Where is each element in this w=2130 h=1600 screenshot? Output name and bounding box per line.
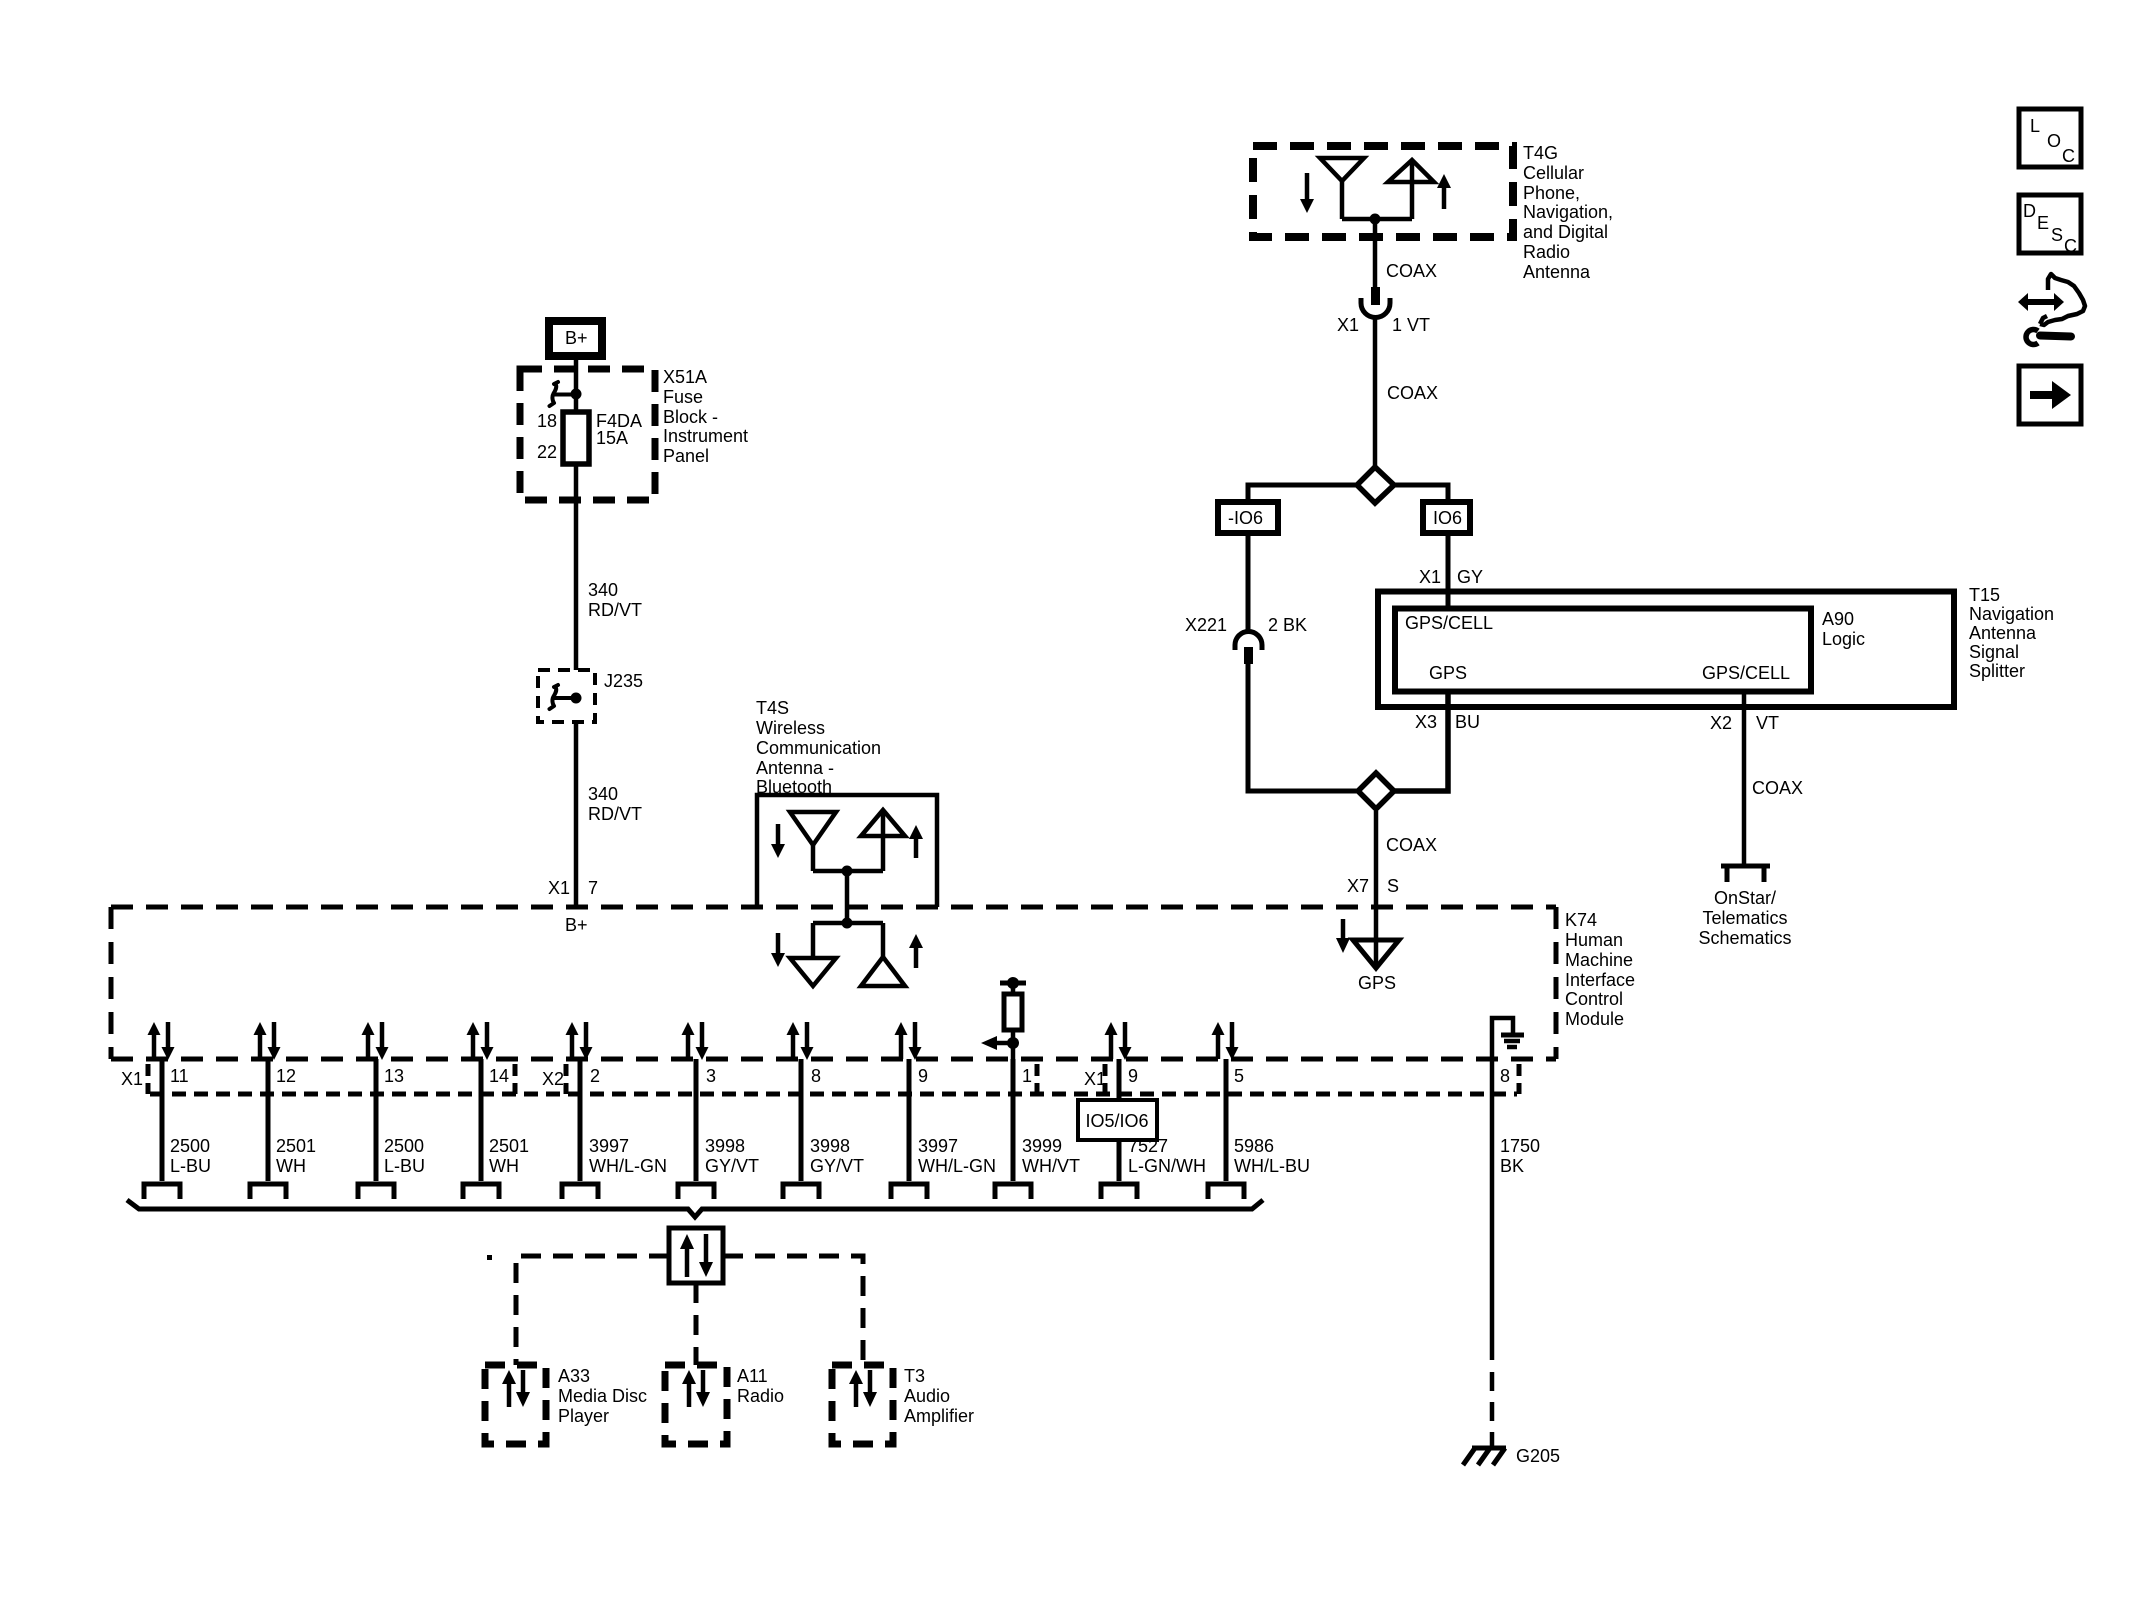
module A11 dashed box [665,1365,727,1444]
label T4S Wireless Communication Antenna - Bluetooth [756,698,881,797]
wire label 2501 WH [276,1136,316,1176]
splice diamond upper [1357,467,1394,503]
label X51A Fuse Block - Instrument Panel [663,367,748,466]
terminal staple pin 14 [463,1184,499,1199]
svg-text:VT: VT [1756,713,1779,733]
svg-text:2501: 2501 [276,1136,316,1156]
terminal staple pin 9 (X1) [1101,1184,1137,1199]
connector separator after pin 1 [1035,1064,1040,1094]
svg-text:WH/L-BU: WH/L-BU [1234,1156,1310,1176]
pin label X2 VT [1710,713,1779,733]
wire label 2500 L-BU [170,1136,211,1176]
terminal staple pin 9 [891,1184,927,1199]
wire label 5986 WH/L-BU [1234,1136,1310,1176]
T4G down arrow [1300,173,1314,213]
junction dot T4S [842,866,853,877]
icon service (double arrow, panel outline, wrench) [2018,274,2085,345]
T4S down arrow [771,824,785,858]
wire 1750 BK [1490,1059,1495,1360]
wire GPS out to splice [1394,691,1448,791]
label A90 Logic [1822,609,1865,649]
antenna T4S box [757,795,937,907]
pin label X3 BU [1415,712,1480,732]
K74 internal down arrow [771,933,785,967]
GPS antenna input symbol [1353,940,1399,968]
svg-text:5: 5 [1234,1066,1244,1086]
wire label 3997 WH/L-GN [589,1136,667,1176]
svg-text:X1: X1 [121,1069,143,1089]
svg-text:Signal: Signal [1969,642,2019,662]
wire 340 RD/VT lower segment [574,722,579,907]
wire IO6 to splitter [1446,533,1451,609]
svg-text:2: 2 [590,1066,600,1086]
pin 9 (X1) arrows [1105,1022,1132,1060]
icon box LOC [2019,109,2081,167]
svg-text:X2: X2 [542,1069,564,1089]
svg-text:RD/VT: RD/VT [588,600,642,620]
T4G receive antenna [1320,158,1364,219]
svg-text:K74: K74 [1565,910,1597,930]
svg-text:A11: A11 [737,1366,768,1386]
svg-text:Wireless: Wireless [756,718,825,738]
wire stub pin 9 (X1) [1117,1059,1122,1181]
svg-text:IO6: IO6 [1433,508,1462,528]
svg-text:L-GN/WH: L-GN/WH [1128,1156,1206,1176]
svg-text:GPS/CELL: GPS/CELL [1405,613,1493,633]
svg-text:Antenna: Antenna [1523,262,1591,282]
svg-text:O: O [2047,131,2061,151]
svg-text:Telematics: Telematics [1702,908,1787,928]
wire B+ to fuse [574,360,579,412]
svg-text:BU: BU [1455,712,1480,732]
module T3 dashed box [832,1365,893,1444]
svg-text:Cellular: Cellular [1523,163,1584,183]
svg-text:L-BU: L-BU [384,1156,425,1176]
wire label 1750 BK [1500,1136,1540,1176]
svg-text:Audio: Audio [904,1386,950,1406]
svg-text:COAX: COAX [1387,383,1438,403]
label K74 Human Machine Interface Control Module [1565,910,1635,1029]
wire label 7527 L-GN/WH [1128,1136,1206,1176]
svg-text:A90: A90 [1822,609,1854,629]
pin 5 arrows [1212,1022,1239,1060]
svg-text:Navigation: Navigation [1969,604,2054,624]
svg-text:OnStar/: OnStar/ [1714,888,1776,908]
tag box -IO6 [1218,502,1278,533]
icon box arrow [2019,366,2081,424]
T4G antenna bus wire [1342,217,1412,222]
svg-text:Fuse: Fuse [663,387,703,407]
svg-text:3997: 3997 [918,1136,958,1156]
wire label 340 RD/VT [588,580,642,620]
wire stub pin 13 [374,1059,379,1181]
svg-text:9: 9 [918,1066,928,1086]
connector separator X1 right [1103,1064,1108,1094]
pin label X1 GY [1419,567,1483,587]
svg-text:Block -: Block - [663,407,718,427]
svg-text:T4G: T4G [1523,143,1558,163]
wire stub pin 2 [578,1059,583,1181]
svg-text:18: 18 [537,411,557,431]
svg-text:7527: 7527 [1128,1136,1168,1156]
wire label 340 RD/VT [588,784,642,824]
svg-text:13: 13 [384,1066,404,1086]
pin label X1 7 at K74 [548,878,598,898]
svg-text:1: 1 [1022,1066,1032,1086]
svg-text:S: S [2051,225,2063,245]
svg-text:X3: X3 [1415,712,1437,732]
svg-text:GY/VT: GY/VT [810,1156,864,1176]
dashed link to A11 [694,1283,699,1365]
svg-text:X51A: X51A [663,367,707,387]
terminal staple pin 8 [783,1184,819,1199]
ground G205 [1463,1446,1560,1466]
K74 internal antenna bus [813,921,883,926]
module K74 dashed box [111,907,1556,1059]
wire GPS/CELL out to OnStar [1742,691,1747,864]
T4G transmit antenna [1388,160,1434,219]
label OnStar/Telematics Schematics [1698,888,1791,948]
svg-text:Instrument: Instrument [663,426,748,446]
connector face dotted line [150,1092,1517,1097]
svg-text:COAX: COAX [1386,835,1437,855]
label A11 Radio [737,1366,784,1406]
terminal staple pin 3 [678,1184,714,1199]
module A33 dashed box [485,1365,546,1444]
terminal staple pin 1 [995,1184,1031,1199]
dashed link to A33 [516,1256,669,1365]
svg-text:Interface: Interface [1565,970,1635,990]
connector separator after pin 14 [513,1064,518,1094]
svg-text:8: 8 [1500,1066,1510,1086]
svg-text:GPS/CELL: GPS/CELL [1702,663,1790,683]
junction dot K74 antenna feed [842,918,853,929]
wire stub pin 9 [907,1059,912,1181]
K74 internal signal ground [1492,1018,1524,1059]
svg-text:Control: Control [1565,989,1623,1009]
K74 internal receive antenna [790,923,836,986]
pin 9 arrows [895,1022,922,1060]
svg-text:X2: X2 [1710,713,1732,733]
svg-text:BK: BK [1500,1156,1524,1176]
wire stub pin 3 [694,1059,699,1181]
svg-text:B+: B+ [565,328,588,348]
K74 internal up arrow [909,934,923,968]
pin 13 arrows [362,1022,389,1060]
wire splice to IO6 [1394,485,1448,502]
svg-text:X7: X7 [1347,876,1369,896]
svg-text:22: 22 [537,442,557,462]
wire stub pin 1 [1011,1059,1016,1181]
inline connector X221 [1235,632,1262,665]
antenna T4G dashed box [1253,146,1513,237]
svg-text:S: S [1387,876,1399,896]
svg-text:3998: 3998 [705,1136,745,1156]
svg-text:D: D [2023,201,2036,221]
svg-text:Communication: Communication [756,738,881,758]
svg-text:Panel: Panel [663,446,709,466]
tag box IO5/IO6 [1078,1100,1157,1140]
svg-text:3999: 3999 [1022,1136,1062,1156]
wire stub pin 14 [479,1059,484,1181]
svg-text:11: 11 [170,1066,189,1086]
wire 340 RD/VT upper segment [574,464,579,670]
GPS input down arrow [1336,919,1350,953]
svg-text:Human: Human [1565,930,1623,950]
svg-text:2 BK: 2 BK [1268,615,1307,635]
svg-text:2500: 2500 [384,1136,424,1156]
junction dot T4G feed [1370,214,1381,225]
terminal staple pin 12 [250,1184,286,1199]
svg-text:3997: 3997 [589,1136,629,1156]
svg-text:IO5/IO6: IO5/IO6 [1085,1111,1148,1131]
svg-text:2501: 2501 [489,1136,529,1156]
wire stub pin 12 [266,1059,271,1181]
svg-text:WH/VT: WH/VT [1022,1156,1080,1176]
svg-text:RD/VT: RD/VT [588,804,642,824]
pin 3 arrows [682,1022,709,1060]
svg-text:Media Disc: Media Disc [558,1386,647,1406]
svg-text:X1: X1 [548,878,570,898]
power node B+ [549,321,602,356]
wire label 3998 GY/VT [705,1136,759,1176]
logic block A90 [1395,609,1811,692]
wire stub pin 11 [160,1059,165,1181]
svg-text:X221: X221 [1185,615,1227,635]
svg-text:GY/VT: GY/VT [705,1156,759,1176]
svg-text:9: 9 [1128,1066,1138,1086]
inline coax connector X1 [1361,287,1390,318]
svg-text:C: C [2062,146,2075,166]
label A33 Media Disc Player [558,1366,647,1426]
terminal staple pin 11 [144,1184,180,1199]
wire stub pin 8 [799,1059,804,1181]
wire X221 to splice [1248,664,1358,791]
svg-text:T15: T15 [1969,585,2000,605]
terminal staple pin 5 [1208,1184,1244,1199]
svg-text:5986: 5986 [1234,1136,1274,1156]
wire T4S feed into K74 [845,871,850,923]
coax wire connector to splice [1373,316,1378,466]
wire -IO6 to connector X221 [1246,533,1251,633]
svg-text:Radio: Radio [1523,242,1570,262]
wire label 3998 GY/VT [810,1136,864,1176]
wire label 2501 WH [489,1136,529,1176]
label T15 Navigation Antenna Signal Splitter [1969,585,2054,681]
svg-text:Antenna -: Antenna - [756,758,834,778]
svg-text:8: 8 [811,1066,821,1086]
svg-text:Schematics: Schematics [1698,928,1791,948]
svg-text:14: 14 [489,1066,509,1086]
svg-text:G205: G205 [1516,1446,1560,1466]
fuse block X51A dashed box [520,369,655,500]
svg-text:WH: WH [276,1156,306,1176]
K74 internal transmit antenna [861,923,905,986]
T4G up arrow [1437,174,1451,209]
pin 14 arrows [467,1022,494,1060]
svg-text:Logic: Logic [1822,629,1865,649]
T4S up arrow [909,825,923,858]
svg-text:1750: 1750 [1500,1136,1540,1156]
coax wire splice to K74 GPS input [1374,811,1379,968]
wire splice to -IO6 [1248,485,1357,502]
svg-text:340: 340 [588,784,618,804]
svg-text:3998: 3998 [810,1136,850,1156]
data link box (up/down arrows) [669,1228,723,1283]
svg-text:340: 340 [588,580,618,600]
T4S antenna bus wire [813,869,883,874]
terminal staple pin 13 [358,1184,394,1199]
svg-text:A33: A33 [558,1366,590,1386]
wire stub pin 5 [1224,1059,1229,1181]
svg-text:-IO6: -IO6 [1228,508,1263,528]
splitter T15 outer box [1378,592,1954,708]
T4S transmit antenna [861,810,905,871]
wire 1750 BK dashed continuation [1490,1372,1495,1437]
svg-text:Splitter: Splitter [1969,661,2025,681]
splice J235 [538,670,643,722]
label T4G Cellular Phone, Navigation, and Digital Radio Antenna [1523,143,1613,282]
pin 2 arrows [566,1022,593,1060]
pin 11 arrows [148,1022,175,1060]
wire label 3999 WH/VT [1022,1136,1080,1176]
pin 8 arrows [787,1022,814,1060]
tag box IO6 [1423,502,1470,533]
svg-text:1 VT: 1 VT [1392,315,1430,335]
pin 1 internal antenna element [981,977,1026,1059]
pin label X7 S [1347,876,1399,896]
T4S receive antenna [790,812,836,871]
svg-text:and Digital: and Digital [1523,222,1608,242]
fuse F4DA 15A [563,411,642,464]
svg-text:Amplifier: Amplifier [904,1406,974,1426]
icon box DESC [2019,195,2081,256]
svg-text:J235: J235 [604,671,643,691]
svg-text:B+: B+ [565,915,588,935]
svg-text:Machine: Machine [1565,950,1633,970]
svg-text:WH: WH [489,1156,519,1176]
label T3 Audio Amplifier [904,1366,974,1426]
svg-text:COAX: COAX [1752,778,1803,798]
svg-text:12: 12 [276,1066,296,1086]
stray dot [487,1255,492,1260]
svg-text:Antenna: Antenna [1969,623,2037,643]
svg-text:WH/L-GN: WH/L-GN [918,1156,996,1176]
wire label 3997 WH/L-GN [918,1136,996,1176]
svg-text:WH/L-GN: WH/L-GN [589,1156,667,1176]
svg-text:2500: 2500 [170,1136,210,1156]
off-page connector to OnStar [1721,866,1770,882]
svg-text:15A: 15A [596,428,628,448]
svg-text:7: 7 [588,878,598,898]
svg-text:Player: Player [558,1406,609,1426]
dashed link to T3 [723,1256,863,1365]
connector separator X1 [146,1064,151,1094]
svg-text:GPS: GPS [1429,663,1467,683]
connector separator after pin 8 right [1517,1064,1522,1094]
svg-text:Navigation,: Navigation, [1523,202,1613,222]
svg-text:GY: GY [1457,567,1483,587]
terminal staple pin 2 [562,1184,598,1199]
coax wire antenna to connector [1373,219,1378,289]
svg-text:C: C [2064,236,2077,256]
svg-text:GPS: GPS [1358,973,1396,993]
svg-text:Radio: Radio [737,1386,784,1406]
svg-text:T3: T3 [904,1366,925,1386]
connector separator X2 [564,1064,569,1094]
pin 12 arrows [254,1022,281,1060]
svg-text:Phone,: Phone, [1523,183,1580,203]
splice diamond lower [1358,773,1394,809]
harness brace [127,1200,1263,1217]
svg-text:T4S: T4S [756,698,789,718]
svg-text:COAX: COAX [1386,261,1437,281]
svg-text:L: L [2030,116,2040,136]
svg-text:X1: X1 [1419,567,1441,587]
wire label 2500 L-BU [384,1136,425,1176]
fuse block internal tap (pin 18 hook) [550,382,582,406]
svg-text:X1: X1 [1337,315,1359,335]
svg-text:L-BU: L-BU [170,1156,211,1176]
svg-text:3: 3 [706,1066,716,1086]
svg-text:E: E [2037,213,2049,233]
svg-text:Module: Module [1565,1009,1624,1029]
